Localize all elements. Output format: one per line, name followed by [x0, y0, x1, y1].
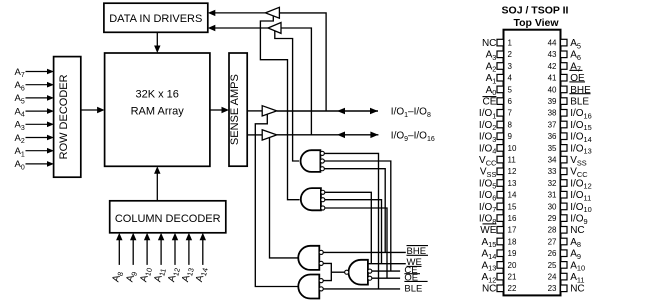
svg-text:CE: CE: [482, 97, 496, 108]
pin 37 I/O15: [548, 120, 592, 132]
pin 16 I/O8: [479, 214, 517, 226]
pin 32 I/O12: [548, 178, 592, 190]
svg-text:8: 8: [508, 120, 513, 129]
svg-text:41: 41: [548, 74, 557, 83]
svg-text:I/O10: I/O10: [570, 202, 592, 214]
svg-text:I/O15: I/O15: [570, 120, 592, 132]
svg-text:I/O12: I/O12: [570, 178, 592, 190]
svg-text:42: 42: [548, 62, 557, 71]
svg-text:A12: A12: [481, 272, 496, 284]
pin 5 A0: [486, 85, 513, 97]
chip body outline: [504, 30, 561, 296]
pin 13 I/O5: [479, 178, 517, 190]
gate G2 write enable lower byte (3-input AND, inverted inputs, left-facing): [301, 188, 325, 210]
svg-text:A0: A0: [486, 85, 497, 97]
pin 12 VSS: [480, 167, 517, 179]
wire: gate G1 input 3 to BHE: [324, 169, 385, 253]
pin 23 NC: [548, 284, 585, 295]
address input A14 label and wire: [194, 233, 210, 284]
underline pin 40 BHE: [569, 93, 590, 95]
svg-text:SOJ / TSOP II: SOJ / TSOP II: [502, 5, 569, 17]
address input A4 label and wire: [15, 106, 55, 118]
svg-text:17: 17: [508, 226, 517, 235]
box 32K x 16 RAM Array: [105, 53, 210, 166]
svg-text:A6: A6: [15, 80, 25, 92]
address input A1 label and wire: [15, 146, 55, 158]
svg-text:RAM Array: RAM Array: [131, 106, 185, 118]
address input A2 label and wire: [15, 133, 55, 145]
address input A7 label and wire: [15, 67, 55, 79]
gate G5 chip/output enable NAND (left-facing, output bubble): [345, 260, 372, 285]
svg-text:I/O1: I/O1: [479, 108, 496, 120]
svg-text:26: 26: [548, 249, 557, 258]
svg-text:A1: A1: [486, 73, 497, 85]
svg-text:12: 12: [508, 167, 517, 176]
svg-text:ROW DECODER: ROW DECODER: [58, 74, 70, 159]
pin 1 NC: [482, 38, 513, 49]
pin 4 A1: [486, 73, 513, 85]
wire: gate G2 input 3 to OE: [325, 208, 387, 278]
gate G3 read enable upper byte (2-input AND, inverted inputs, left-facing): [298, 246, 323, 270]
svg-text:A10: A10: [570, 260, 585, 272]
pin 30 I/O10: [548, 202, 592, 214]
pin 41 OE: [548, 73, 585, 84]
svg-text:A8: A8: [570, 237, 581, 249]
gate G1 write enable upper byte (3-input AND, inverted inputs, left-facing): [301, 150, 325, 172]
gate G4 read enable lower byte (2-input AND, inverted inputs, left-facing): [298, 275, 323, 299]
svg-text:40: 40: [548, 85, 557, 94]
buffer U2 write driver upper (left-pointing): [265, 7, 279, 18]
svg-text:21: 21: [508, 273, 517, 282]
svg-text:A9: A9: [124, 270, 139, 284]
svg-text:DATA IN DRIVERS: DATA IN DRIVERS: [109, 13, 202, 25]
wire: buffer U3 output to DATA IN DRIVERS: [208, 25, 268, 31]
svg-text:NC: NC: [482, 38, 496, 49]
svg-text:32K x 16: 32K x 16: [135, 89, 178, 101]
overline pin 6 CE: [483, 96, 497, 98]
svg-text:A11: A11: [570, 272, 584, 284]
svg-text:I/O3: I/O3: [479, 132, 496, 144]
buffer U3 write driver lower (left-pointing): [268, 23, 281, 34]
pin 28 NC: [548, 225, 585, 236]
svg-text:I/O9: I/O9: [570, 214, 587, 226]
svg-text:VSS: VSS: [570, 155, 587, 167]
wire: gate G1 input 1 to BLE: [324, 153, 378, 289]
wire: gate G1 input 2 to CE: [324, 161, 391, 271]
svg-text:13: 13: [508, 179, 517, 188]
svg-text:27: 27: [548, 237, 557, 246]
svg-text:44: 44: [548, 39, 557, 48]
wire: I/O1-I/O8 bus to buffer U2 input: [279, 13, 326, 111]
wire: OE control line: [372, 277, 400, 279]
address input A11 label and wire: [152, 233, 168, 284]
wire: I/O1-I/O8 bidirectional bus: [277, 108, 378, 115]
wire: SENSE AMPS to buffer U5 input: [247, 134, 262, 136]
wire: gate G3 output to buffer U5 enable: [270, 138, 300, 258]
svg-text:A1: A1: [15, 146, 25, 158]
svg-text:14: 14: [508, 191, 517, 200]
svg-text:1: 1: [508, 39, 513, 48]
svg-text:A6: A6: [570, 50, 581, 62]
address input A9 label and wire: [124, 233, 139, 284]
svg-text:NC: NC: [482, 284, 496, 295]
label OE with overline: [404, 272, 427, 283]
svg-text:35: 35: [548, 144, 557, 153]
svg-text:WE: WE: [480, 225, 496, 236]
svg-text:A8: A8: [111, 270, 126, 284]
svg-text:VCC: VCC: [570, 167, 588, 179]
pin 29 I/O9: [548, 214, 588, 226]
svg-text:VSS: VSS: [480, 167, 497, 179]
pin 11 VCC: [479, 155, 516, 167]
pin 38 I/O16: [548, 108, 592, 120]
pin 14 I/O6: [479, 190, 517, 202]
wire: RAM Array to SENSE AMPS arrow: [210, 107, 229, 113]
address input A13 label and wire: [180, 233, 196, 284]
address input A12 label and wire: [166, 233, 182, 284]
box SENSE AMPS: [229, 53, 247, 166]
buffer U4 output buffer upper (right-pointing): [262, 106, 277, 116]
pin 42 A7: [548, 61, 581, 73]
svg-text:9: 9: [508, 132, 513, 141]
wire: CE control line: [372, 270, 400, 272]
wire: gate G5 output stub: [331, 271, 345, 273]
svg-text:34: 34: [548, 156, 557, 165]
pin 44 A5: [548, 38, 581, 50]
pin 22 NC: [482, 284, 517, 295]
svg-text:I/O6: I/O6: [479, 190, 496, 202]
pin 24 A11: [548, 272, 585, 284]
svg-text:I/O14: I/O14: [570, 132, 592, 144]
svg-text:I/O7: I/O7: [479, 202, 496, 214]
label BHE with overline: [407, 246, 429, 257]
box ROW DECODER: [54, 57, 81, 178]
pin 3 A2: [486, 61, 513, 73]
svg-text:A4: A4: [15, 106, 25, 118]
address input A6 label and wire: [15, 80, 55, 92]
svg-text:BLE: BLE: [404, 283, 422, 294]
label CE with overline: [404, 265, 420, 276]
svg-text:19: 19: [508, 249, 517, 258]
overline pin 17 WE: [483, 223, 497, 225]
box COLUMN DECODER: [110, 201, 226, 233]
svg-text:20: 20: [508, 261, 517, 270]
pin 21 A12: [481, 272, 516, 284]
wire: WE control line: [368, 263, 406, 265]
svg-text:I/O2: I/O2: [479, 120, 496, 132]
svg-text:43: 43: [548, 50, 557, 59]
wire: gate G4 output to buffer U4 enable: [255, 114, 299, 286]
svg-text:A9: A9: [570, 249, 581, 261]
svg-text:15: 15: [508, 202, 517, 211]
wire: gate G2 input 1 to WE: [325, 192, 372, 263]
wire: DATA IN DRIVERS to RAM Array arrow: [154, 32, 160, 53]
pin 2 A3: [486, 50, 513, 62]
svg-text:A5: A5: [15, 93, 25, 105]
svg-text:A5: A5: [570, 38, 581, 50]
svg-text:7: 7: [508, 109, 513, 118]
svg-text:2: 2: [508, 50, 513, 59]
pin 26 A9: [548, 249, 581, 261]
svg-text:A3: A3: [486, 50, 497, 62]
pin 20 A13: [481, 260, 516, 272]
pin 36 I/O14: [548, 132, 592, 144]
wire: I/O9-I/O16 bus to buffer U3 input: [281, 28, 311, 135]
pin 35 I/O13: [548, 143, 592, 155]
svg-text:A15: A15: [481, 237, 496, 249]
pin 19 A14: [481, 249, 516, 261]
pin 31 I/O11: [548, 190, 592, 202]
svg-text:30: 30: [548, 202, 557, 211]
underline pin 41 OE: [569, 81, 585, 83]
svg-text:A3: A3: [15, 120, 25, 132]
svg-text:37: 37: [548, 120, 557, 129]
svg-text:5: 5: [508, 85, 513, 94]
svg-text:BLE: BLE: [570, 97, 589, 108]
svg-text:39: 39: [548, 97, 557, 106]
svg-text:24: 24: [548, 273, 557, 282]
svg-text:25: 25: [548, 261, 557, 270]
wire: ROW DECODER to RAM Array arrow: [81, 107, 105, 113]
box DATA IN DRIVERS: [104, 3, 208, 32]
svg-text:I/O1–I/O8: I/O1–I/O8: [391, 107, 431, 119]
label WE with overline: [407, 257, 422, 268]
svg-text:36: 36: [548, 132, 557, 141]
pin 8 I/O2: [479, 120, 513, 132]
pin 43 A6: [548, 50, 581, 62]
svg-text:28: 28: [548, 226, 557, 235]
svg-text:A7: A7: [15, 67, 25, 79]
wire: SENSE AMPS to buffer U4 input: [247, 110, 262, 112]
wire: gate G2 input 2 to WE: [325, 200, 382, 264]
svg-text:I/O5: I/O5: [479, 178, 496, 190]
pin 6 CE: [482, 97, 512, 108]
svg-text:A14: A14: [194, 266, 210, 284]
svg-text:COLUMN DECODER: COLUMN DECODER: [115, 213, 221, 225]
svg-text:I/O9–I/O16: I/O9–I/O16: [391, 131, 435, 143]
svg-text:I/O11: I/O11: [570, 190, 591, 202]
svg-text:I/O13: I/O13: [570, 143, 592, 155]
pin 9 I/O3: [479, 132, 513, 144]
pin 39 BLE: [548, 97, 590, 108]
wire: buffer U2 output to DATA IN DRIVERS: [208, 10, 266, 16]
wire: gate G5 output to gates G3/G4 inputs: [323, 263, 331, 280]
buffer U5 output buffer lower (right-pointing): [262, 130, 277, 140]
wire: I/O9-I/O16 bidirectional bus: [277, 132, 379, 139]
svg-text:A7: A7: [570, 61, 581, 73]
pin 18 A15: [481, 237, 516, 249]
svg-text:A0: A0: [15, 159, 25, 171]
wire: gate G2 output to buffer U2 enable: [260, 16, 299, 200]
svg-text:I/O4: I/O4: [479, 143, 496, 155]
svg-text:31: 31: [548, 191, 557, 200]
wire: gate G1 output to buffer U3 enable: [275, 31, 299, 161]
svg-text:SENSE AMPS: SENSE AMPS: [229, 74, 241, 145]
pin 40 BHE: [548, 85, 591, 96]
svg-text:6: 6: [508, 97, 513, 106]
address input A3 label and wire: [15, 120, 55, 132]
pin 25 A10: [548, 260, 586, 272]
pin 15 I/O7: [479, 202, 517, 214]
wire: BHE control line: [323, 251, 406, 253]
svg-text:10: 10: [508, 144, 517, 153]
underline pin 42 A7: [569, 69, 582, 71]
pin 33 VCC: [548, 167, 589, 179]
pin 10 I/O4: [479, 143, 517, 155]
svg-text:VCC: VCC: [479, 155, 497, 167]
svg-text:Top View: Top View: [513, 17, 559, 29]
svg-text:NC: NC: [570, 284, 584, 295]
wire: BLE control line from gate G4: [323, 288, 400, 290]
svg-text:A13: A13: [481, 260, 496, 272]
svg-text:38: 38: [548, 109, 557, 118]
address input A5 label and wire: [15, 93, 55, 105]
svg-text:33: 33: [548, 167, 557, 176]
svg-text:32: 32: [548, 179, 557, 188]
svg-text:A2: A2: [15, 133, 25, 145]
svg-text:4: 4: [508, 74, 513, 83]
svg-text:22: 22: [508, 284, 517, 293]
pin 34 VSS: [548, 155, 587, 167]
svg-text:3: 3: [508, 62, 513, 71]
svg-text:A14: A14: [481, 249, 496, 261]
address input A8 label and wire: [111, 233, 126, 284]
svg-text:16: 16: [508, 214, 517, 223]
svg-text:I/O16: I/O16: [570, 108, 592, 120]
svg-text:29: 29: [548, 214, 557, 223]
wire: COLUMN DECODER to RAM Array arrow: [154, 166, 160, 201]
svg-text:18: 18: [508, 237, 517, 246]
pin 17 WE: [480, 225, 517, 236]
svg-text:A2: A2: [486, 61, 497, 73]
pin 7 I/O1: [479, 108, 513, 120]
address input A0 label and wire: [15, 159, 55, 171]
pin 27 A8: [548, 237, 581, 249]
svg-text:11: 11: [508, 156, 517, 165]
svg-text:23: 23: [548, 284, 557, 293]
address input A10 label and wire: [138, 233, 154, 284]
svg-text:NC: NC: [570, 225, 584, 236]
